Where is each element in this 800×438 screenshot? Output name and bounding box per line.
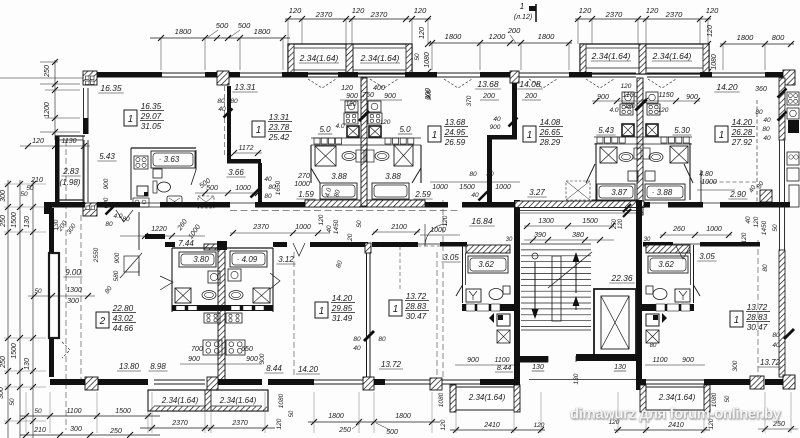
room label 2.83 <box>61 167 80 176</box>
svg-text:300: 300 <box>259 353 266 364</box>
svg-text:200: 200 <box>482 93 495 100</box>
room label 5.43 cluster2 <box>596 126 615 135</box>
svg-text:650: 650 <box>241 346 253 353</box>
svg-text:2.34(1.64): 2.34(1.64) <box>652 51 692 61</box>
svg-text:260: 260 <box>672 226 685 233</box>
door triangle right corridor <box>676 246 690 259</box>
svg-text:270: 270 <box>297 173 310 180</box>
svg-text:40: 40 <box>763 117 771 124</box>
svg-text:2370: 2370 <box>171 420 188 427</box>
svg-text:50: 50 <box>289 410 295 417</box>
dimension row second-right 1800/800 <box>720 33 794 70</box>
svg-text:200: 200 <box>524 93 537 100</box>
washing machines cluster1 <box>345 101 381 112</box>
room label 14.20 top right <box>714 82 740 92</box>
svg-text:1000: 1000 <box>706 226 722 233</box>
svg-text:300: 300 <box>732 360 739 371</box>
svg-text:30.47: 30.47 <box>747 323 768 332</box>
wall slashes right wall <box>778 89 787 121</box>
bath top wall hatched 3.62 right <box>646 245 690 253</box>
svg-text:900: 900 <box>103 178 110 189</box>
svg-text:120: 120 <box>621 83 632 90</box>
svg-text:900: 900 <box>686 94 698 101</box>
svg-text:130: 130 <box>573 373 580 384</box>
svg-text:900: 900 <box>384 93 396 100</box>
svg-text:580: 580 <box>113 270 120 281</box>
svg-text:1.59: 1.59 <box>298 190 314 199</box>
room label 13.72 bottom right <box>758 358 782 367</box>
svg-text:750: 750 <box>362 92 374 99</box>
apartment 2 hall partition <box>138 212 140 276</box>
loggia left of entrance <box>450 385 520 412</box>
svg-text:120: 120 <box>341 85 353 92</box>
wall between rooms 16.35 and 13.31 zigzag <box>225 86 263 203</box>
svg-text:1100: 1100 <box>652 357 667 364</box>
entrance landing line <box>529 379 637 381</box>
svg-text:900: 900 <box>188 356 200 363</box>
sink pair1 right <box>229 291 243 300</box>
wall block corner 2.90 <box>748 180 772 202</box>
stove pair1 left lower <box>203 340 222 355</box>
stairwell left wall <box>514 200 520 390</box>
door triangle apt2 hall <box>160 276 173 290</box>
vent block row bath cluster 1 <box>311 138 421 145</box>
svg-text:1150: 1150 <box>622 92 637 99</box>
bottom extension lines <box>26 392 791 433</box>
svg-text:5.0: 5.0 <box>319 125 331 134</box>
svg-text:600: 600 <box>103 197 110 208</box>
sink right cluster1 <box>375 152 389 161</box>
dims 500/1000 row left <box>195 185 261 196</box>
svg-text:120: 120 <box>753 216 760 227</box>
svg-text:80: 80 <box>762 126 770 133</box>
svg-text:130: 130 <box>24 216 31 228</box>
room label 2.59 <box>413 190 432 199</box>
dims 40/80/80 and 1650 <box>251 176 283 200</box>
svg-text:120: 120 <box>646 6 659 15</box>
svg-text:300: 300 <box>0 387 5 399</box>
right outer wall <box>779 78 785 377</box>
svg-text:2.34(1.64): 2.34(1.64) <box>468 393 506 402</box>
dim 370/300 vertical <box>426 89 473 106</box>
svg-text:13.68: 13.68 <box>445 118 466 127</box>
svg-text:2: 2 <box>99 316 106 327</box>
svg-text:2.34(1.64): 2.34(1.64) <box>161 396 199 405</box>
top outer wall thick segments <box>97 72 795 78</box>
shaft boxes right of stairwell <box>646 313 667 349</box>
corridor upper wall right half <box>425 202 790 208</box>
svg-text:26.28: 26.28 <box>731 128 753 137</box>
room label 9.00 <box>63 268 82 277</box>
left lower outer wall <box>49 208 54 377</box>
svg-text:1: 1 <box>527 130 532 141</box>
corridor lower wall right apartments <box>165 242 760 247</box>
svg-text:13.72: 13.72 <box>747 303 768 312</box>
dims bottom right 250 <box>758 421 798 432</box>
svg-text:23.78: 23.78 <box>268 123 290 132</box>
svg-text:(л.12): (л.12) <box>514 14 532 21</box>
svg-text:130: 130 <box>24 358 31 370</box>
svg-text:250: 250 <box>0 215 7 228</box>
shaft boxes left of stairwell <box>489 313 510 343</box>
svg-text:1: 1 <box>520 2 524 11</box>
bathtub 4.09 <box>230 251 267 267</box>
sink left cluster2 <box>619 153 633 162</box>
svg-text:3.88: 3.88 <box>331 172 347 181</box>
apartment stack 1d <box>523 118 563 147</box>
svg-text:40: 40 <box>471 192 479 199</box>
svg-text:31.49: 31.49 <box>332 314 353 323</box>
svg-text:390: 390 <box>534 232 546 239</box>
room label 3.05 right <box>697 252 716 261</box>
svg-text:1: 1 <box>128 114 133 125</box>
dims 900/1150/120 above cluster2 <box>592 83 700 110</box>
svg-text:16.35: 16.35 <box>141 102 162 111</box>
svg-text:30.47: 30.47 <box>406 312 427 321</box>
left balcony door window <box>84 140 88 202</box>
apartment stack 1e <box>715 118 755 147</box>
svg-text:13.31: 13.31 <box>269 113 290 122</box>
svg-text:13.68: 13.68 <box>477 79 499 89</box>
balcony top-left outline <box>288 44 412 74</box>
stove pair1 right lower <box>226 340 245 355</box>
window V mark 9.00 room <box>62 342 70 358</box>
stairwell top wall hatched <box>515 201 644 217</box>
svg-text:130: 130 <box>614 364 626 371</box>
room label 2.90 <box>728 190 747 199</box>
svg-text:1300: 1300 <box>538 218 554 225</box>
dims 80 80 40 near wall x227 <box>217 98 238 118</box>
svg-text:1080: 1080 <box>438 392 445 407</box>
shower cabins dark cluster2 <box>622 124 658 136</box>
svg-text:8.98: 8.98 <box>150 362 166 371</box>
svg-text:14.20: 14.20 <box>732 118 753 127</box>
svg-text:900: 900 <box>490 124 501 131</box>
svg-text:16.35: 16.35 <box>100 83 122 93</box>
svg-text:40: 40 <box>763 135 771 142</box>
bathtub 3.88 cluster2 <box>645 184 685 200</box>
dimension row top-left 120/2370/120/2370/120 <box>285 6 431 44</box>
shower tray left cluster1 <box>315 146 336 166</box>
dashed room boundary right apt <box>700 245 758 247</box>
svg-text:900: 900 <box>682 357 694 364</box>
svg-text:1000: 1000 <box>432 184 448 191</box>
svg-text:30: 30 <box>506 237 513 243</box>
svg-text:80: 80 <box>378 336 386 343</box>
dims 80/40 column right of stack 1e <box>755 109 771 142</box>
top wall block x217 <box>217 71 229 85</box>
svg-text:1: 1 <box>432 130 437 141</box>
dims 900/1100/8.44 bottom left-of-stair <box>455 357 515 372</box>
left wall corner connector <box>44 202 85 214</box>
svg-text:250: 250 <box>44 65 51 78</box>
axis dashed bottom rooms <box>294 252 437 378</box>
toilet apartment 1a <box>153 181 171 193</box>
dim ticks 250/1200 wall <box>45 87 80 121</box>
svg-text:1: 1 <box>393 304 398 315</box>
svg-text:1500: 1500 <box>115 408 131 415</box>
svg-text:2370: 2370 <box>665 10 684 19</box>
svg-text:28.83: 28.83 <box>405 302 427 311</box>
corridor wall hatched under cluster1 <box>305 200 425 207</box>
svg-text:50: 50 <box>20 191 28 198</box>
svg-text:1100: 1100 <box>66 408 81 415</box>
svg-text:500: 500 <box>238 21 251 30</box>
svg-text:5.30: 5.30 <box>674 126 690 135</box>
central hatched wall x363 top bathrooms <box>361 78 367 206</box>
right edge kitchen fixtures <box>787 92 799 207</box>
svg-text:8.44: 8.44 <box>266 364 282 373</box>
svg-text:1080: 1080 <box>424 52 431 68</box>
svg-text:120: 120 <box>618 218 624 229</box>
svg-text:120: 120 <box>419 27 426 39</box>
window sill V-marks under top windows <box>308 79 676 88</box>
stoves cluster1 <box>344 113 382 124</box>
top outer wall windows <box>162 73 765 77</box>
svg-text:1: 1 <box>319 306 324 317</box>
room label 5.0 left <box>318 125 332 134</box>
svg-text:29.07: 29.07 <box>140 112 162 121</box>
svg-text:1172: 1172 <box>238 145 253 152</box>
svg-text:80: 80 <box>772 332 780 339</box>
svg-text:2.59: 2.59 <box>414 190 431 199</box>
svg-text:28.83: 28.83 <box>746 313 768 322</box>
svg-text:3.88: 3.88 <box>385 172 401 181</box>
bathtub 3.88 left <box>320 183 357 199</box>
svg-text:700: 700 <box>191 346 203 353</box>
apartment stack 1b <box>252 113 292 142</box>
svg-text:80: 80 <box>217 98 225 105</box>
svg-text:120: 120 <box>579 6 592 15</box>
svg-text:120: 120 <box>658 107 669 114</box>
svg-text:120: 120 <box>534 422 545 429</box>
svg-text:1200: 1200 <box>489 32 507 41</box>
svg-text:120: 120 <box>706 6 719 15</box>
svg-text:2.90: 2.90 <box>729 190 746 199</box>
elevator car <box>601 296 629 349</box>
kitchen counter apartment 1a <box>133 198 149 207</box>
svg-text:25.42: 25.42 <box>268 133 290 142</box>
washing machine apartment 1a <box>137 186 148 196</box>
svg-text:50: 50 <box>725 395 731 402</box>
washers cluster2 <box>622 92 658 103</box>
svg-text:1500: 1500 <box>582 218 598 225</box>
svg-text:50: 50 <box>9 398 16 406</box>
svg-text:370: 370 <box>466 95 473 106</box>
bathtub 3.80 <box>179 252 216 267</box>
svg-text:2370: 2370 <box>315 10 334 19</box>
shower cabins dark cluster1 <box>347 126 381 137</box>
svg-text:3.66: 3.66 <box>228 168 244 177</box>
wall shaft dashed x757 <box>756 100 758 203</box>
counter boxes 3.62 right <box>656 304 690 311</box>
svg-text:50: 50 <box>34 408 42 415</box>
svg-text:1: 1 <box>719 130 724 141</box>
dims 80 80 row y176 <box>430 171 520 201</box>
dimension row bottom 2370 x2 <box>140 420 275 431</box>
stair treads <box>521 244 591 327</box>
shower 3.62 right <box>675 289 690 302</box>
svg-text:1300: 1300 <box>66 287 82 294</box>
central hatched wall x638 right bathrooms <box>637 78 643 215</box>
svg-text:29.85: 29.85 <box>331 304 353 313</box>
dims 50/1300/300 <box>28 287 95 305</box>
svg-text:40: 40 <box>218 106 226 113</box>
door chamfer cluster2 right <box>684 164 693 183</box>
table X apartment 1a <box>167 196 182 207</box>
dims 80 80 40 near x368 <box>353 336 386 352</box>
corridor upper wall left half <box>97 202 368 208</box>
svg-text:· 3.63: · 3.63 <box>159 155 180 164</box>
svg-text:· 4.09: · 4.09 <box>237 255 258 264</box>
svg-text:1000: 1000 <box>430 227 446 234</box>
balcony bottom pair outline <box>148 390 268 411</box>
room label 3.27 <box>527 188 546 197</box>
shower 3.62 left <box>466 289 481 302</box>
svg-text:1150: 1150 <box>658 92 673 99</box>
svg-text:(1.98): (1.98) <box>60 178 81 187</box>
left small balcony 2.83 outline <box>55 136 85 202</box>
svg-text:2.34(1.64): 2.34(1.64) <box>591 51 631 61</box>
svg-text:210: 210 <box>30 177 43 184</box>
svg-text:800: 800 <box>772 33 785 42</box>
elevator shaft <box>594 289 636 356</box>
watermark dimawurz <box>570 406 783 425</box>
svg-text:120: 120 <box>741 232 748 243</box>
dim 120/1130 over balcony <box>20 138 90 149</box>
svg-text:130: 130 <box>532 364 544 371</box>
svg-text:50: 50 <box>34 288 42 295</box>
door chamfer cluster2 left <box>586 164 595 183</box>
svg-text:1220: 1220 <box>151 226 167 233</box>
room label 16.84 <box>469 216 495 226</box>
loggia right of entrance <box>640 385 710 412</box>
svg-text:360: 360 <box>755 86 767 93</box>
balcony top-right hatched divider <box>639 44 646 74</box>
dims 40/900 near zigzag wall <box>490 116 518 131</box>
svg-text:1000: 1000 <box>294 181 310 188</box>
dims bottom 2410/120 right loggia <box>609 360 739 433</box>
svg-text:13.72: 13.72 <box>381 360 402 369</box>
svg-text:900: 900 <box>467 357 479 364</box>
kitchen stove apartment 1a <box>134 156 148 169</box>
dimension row second-middle 1800/1200/200/1800 <box>429 26 572 70</box>
svg-text:8.44: 8.44 <box>497 363 512 372</box>
dims 2370/1000 corridor <box>230 224 330 236</box>
washer pair1 left <box>208 271 220 283</box>
bottom wall blocks <box>85 375 795 390</box>
dim 1172 <box>231 145 262 156</box>
svg-text:250: 250 <box>338 427 351 434</box>
svg-text:14.08: 14.08 <box>519 79 541 89</box>
svg-text:120: 120 <box>414 6 427 15</box>
svg-text:120: 120 <box>347 233 354 244</box>
svg-text:500: 500 <box>386 429 398 436</box>
svg-text:2.34(1.64): 2.34(1.64) <box>658 393 696 402</box>
dims bottom 1800/250/500 middle <box>308 413 440 436</box>
svg-text:40: 40 <box>326 225 333 233</box>
shower pair1 left <box>175 288 191 303</box>
dims 1000 under 16.84 <box>420 227 460 235</box>
room label 5.0 right <box>398 125 412 134</box>
partition around bathroom 1a <box>131 148 196 200</box>
svg-text:200: 200 <box>507 26 521 35</box>
svg-text:13.72: 13.72 <box>406 292 427 301</box>
dim 200 under 13.68 <box>480 93 499 100</box>
svg-text:1800: 1800 <box>737 33 755 42</box>
top wall corner block left <box>83 71 97 85</box>
svg-text:1200: 1200 <box>44 102 51 118</box>
svg-text:2410: 2410 <box>483 422 500 429</box>
room label 13.31 <box>232 82 258 92</box>
dims 130 entrance <box>532 364 627 384</box>
svg-text:14.08: 14.08 <box>540 118 561 127</box>
svg-text:1: 1 <box>256 125 261 136</box>
counter boxes 3.62 left <box>466 304 500 311</box>
shower pair1 right <box>253 288 270 303</box>
svg-text:120: 120 <box>352 6 365 15</box>
wardrobe dashed corridor 3.27 <box>566 181 590 200</box>
svg-text:7.44: 7.44 <box>178 239 194 248</box>
svg-text:40: 40 <box>745 216 752 224</box>
svg-text:14.20: 14.20 <box>298 365 319 374</box>
zigzag wall between 13.68 and 14.08 <box>487 83 517 206</box>
svg-text:900: 900 <box>114 252 121 263</box>
svg-text:1800: 1800 <box>395 413 411 420</box>
room label 3.66 <box>226 168 245 177</box>
svg-text:22.80: 22.80 <box>112 304 134 313</box>
stair start circle <box>532 253 538 259</box>
dashed room boundary 13.72 left <box>372 246 440 290</box>
wardrobe dashed 1a <box>198 196 214 208</box>
svg-text:44.66: 44.66 <box>113 324 134 333</box>
svg-text:120: 120 <box>32 138 44 145</box>
svg-text:300: 300 <box>70 426 82 433</box>
svg-text:40: 40 <box>353 345 361 352</box>
svg-text:9.00: 9.00 <box>65 268 81 277</box>
svg-text:500: 500 <box>206 185 218 192</box>
corridor axis dashed y210 <box>230 210 460 212</box>
corridor lower wall left (apartment 2 top) <box>47 204 52 209</box>
svg-text:27.92: 27.92 <box>731 138 753 147</box>
svg-text:30: 30 <box>644 237 651 243</box>
svg-text:1500: 1500 <box>11 343 18 359</box>
left dimension column verticals <box>0 180 36 438</box>
top wall block x510 <box>510 71 519 83</box>
corridor 2.90 top dashed <box>700 181 756 183</box>
dims 4.80/1000 right <box>697 171 735 190</box>
svg-text:1800: 1800 <box>538 32 556 41</box>
vertical dim 120/1080 right balcony <box>705 25 718 75</box>
svg-text:1650: 1650 <box>275 180 282 195</box>
stair down arrow <box>532 262 539 319</box>
room label 3.05 left <box>441 253 460 262</box>
svg-text:40: 40 <box>493 116 501 123</box>
hatched wall piece y247 <box>145 234 225 250</box>
svg-text:3.87: 3.87 <box>611 188 627 197</box>
left extension lines <box>4 184 46 421</box>
svg-text:14.20: 14.20 <box>716 82 738 92</box>
svg-text:3.12: 3.12 <box>278 255 294 264</box>
dims 40/120 cluster2 <box>609 100 668 115</box>
door arc 16.84 corridor <box>425 224 447 246</box>
bathtub 3.87 <box>597 184 635 200</box>
dimension row second-left 1800/500/500/1800 <box>150 21 290 70</box>
svg-text:22.36: 22.36 <box>610 273 633 283</box>
toilet pair cluster2 <box>634 148 650 159</box>
svg-text:1800: 1800 <box>445 32 463 41</box>
svg-text:50: 50 <box>772 224 779 232</box>
